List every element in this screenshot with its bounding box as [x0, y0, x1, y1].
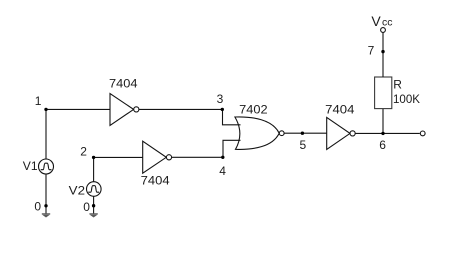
svg-text:0: 0 [34, 200, 41, 214]
svg-text:7404: 7404 [141, 174, 170, 188]
svg-text:5: 5 [300, 138, 307, 152]
svg-text:7404: 7404 [109, 77, 138, 91]
svg-text:V2: V2 [69, 184, 86, 198]
svg-text:R: R [393, 78, 402, 92]
svg-text:V1: V1 [23, 159, 38, 173]
svg-text:6: 6 [379, 138, 386, 152]
svg-text:2: 2 [80, 145, 87, 159]
svg-text:cc: cc [382, 17, 393, 29]
svg-text:7404: 7404 [325, 102, 355, 116]
svg-text:7402: 7402 [239, 103, 268, 117]
svg-text:100K: 100K [393, 92, 420, 106]
svg-text:3: 3 [217, 92, 224, 106]
svg-text:0: 0 [83, 200, 90, 214]
svg-text:4: 4 [219, 164, 226, 178]
svg-text:V: V [371, 13, 381, 29]
svg-text:7: 7 [368, 43, 375, 57]
svg-text:1: 1 [35, 94, 42, 108]
